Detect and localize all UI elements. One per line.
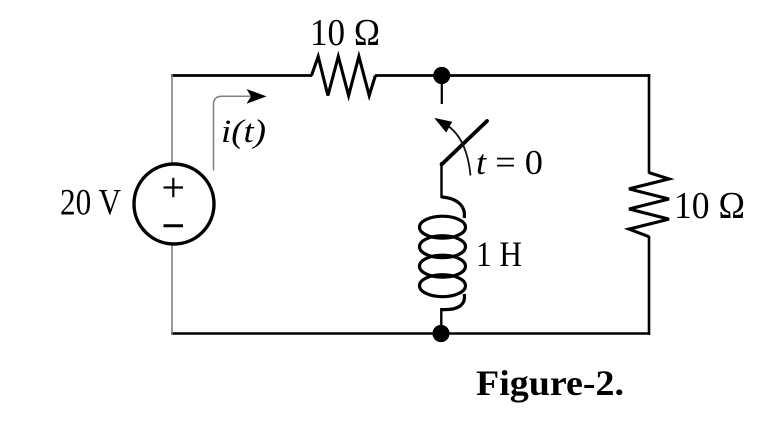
wire right vertical lower	[648, 236, 651, 335]
minus sign of source	[164, 224, 184, 227]
svg-text:10 Ω: 10 Ω	[310, 12, 380, 54]
current arrow i(t)	[214, 96, 259, 170]
resistor R2 10 ohm (right)	[629, 173, 669, 237]
plus sign of source	[164, 186, 184, 188]
wire top horizontal left segment	[171, 74, 312, 77]
node B (bottom junction dot)	[432, 325, 449, 342]
wire switch to inductor	[440, 162, 442, 198]
inductor L1 exit curve	[442, 294, 465, 310]
wire top horizontal right segment	[375, 74, 650, 77]
voltage source V1 circle	[134, 164, 214, 244]
svg-text:10 Ω: 10 Ω	[674, 185, 745, 227]
svg-text:i(t): i(t)	[221, 114, 266, 150]
svg-text:t = 0: t = 0	[476, 143, 543, 182]
switch motion arc	[448, 126, 471, 176]
inductor L1 coil loop 3	[420, 255, 466, 277]
inductor L1 entry curve	[442, 197, 465, 218]
inductor L1 coil loop 4	[420, 275, 466, 297]
svg-text:Figure-2.: Figure-2.	[476, 363, 624, 403]
wire inductor to node B	[440, 308, 442, 333]
wire bottom horizontal	[171, 332, 650, 335]
node A (top junction dot)	[433, 67, 450, 84]
wire switch stub from node A	[441, 83, 443, 104]
wire left vertical upper	[171, 74, 173, 165]
switch S1 blade	[442, 121, 487, 165]
svg-text:20 V: 20 V	[60, 183, 121, 224]
inductor L1 coil loop 2	[420, 236, 466, 258]
wire left vertical lower	[171, 244, 173, 335]
inductor L1 coil loop 1	[420, 216, 466, 238]
resistor R1 10 ohm (top)	[312, 57, 376, 96]
svg-text:1 H: 1 H	[476, 234, 522, 274]
wire right vertical upper	[648, 74, 651, 173]
switch arc arrowhead	[434, 118, 452, 133]
